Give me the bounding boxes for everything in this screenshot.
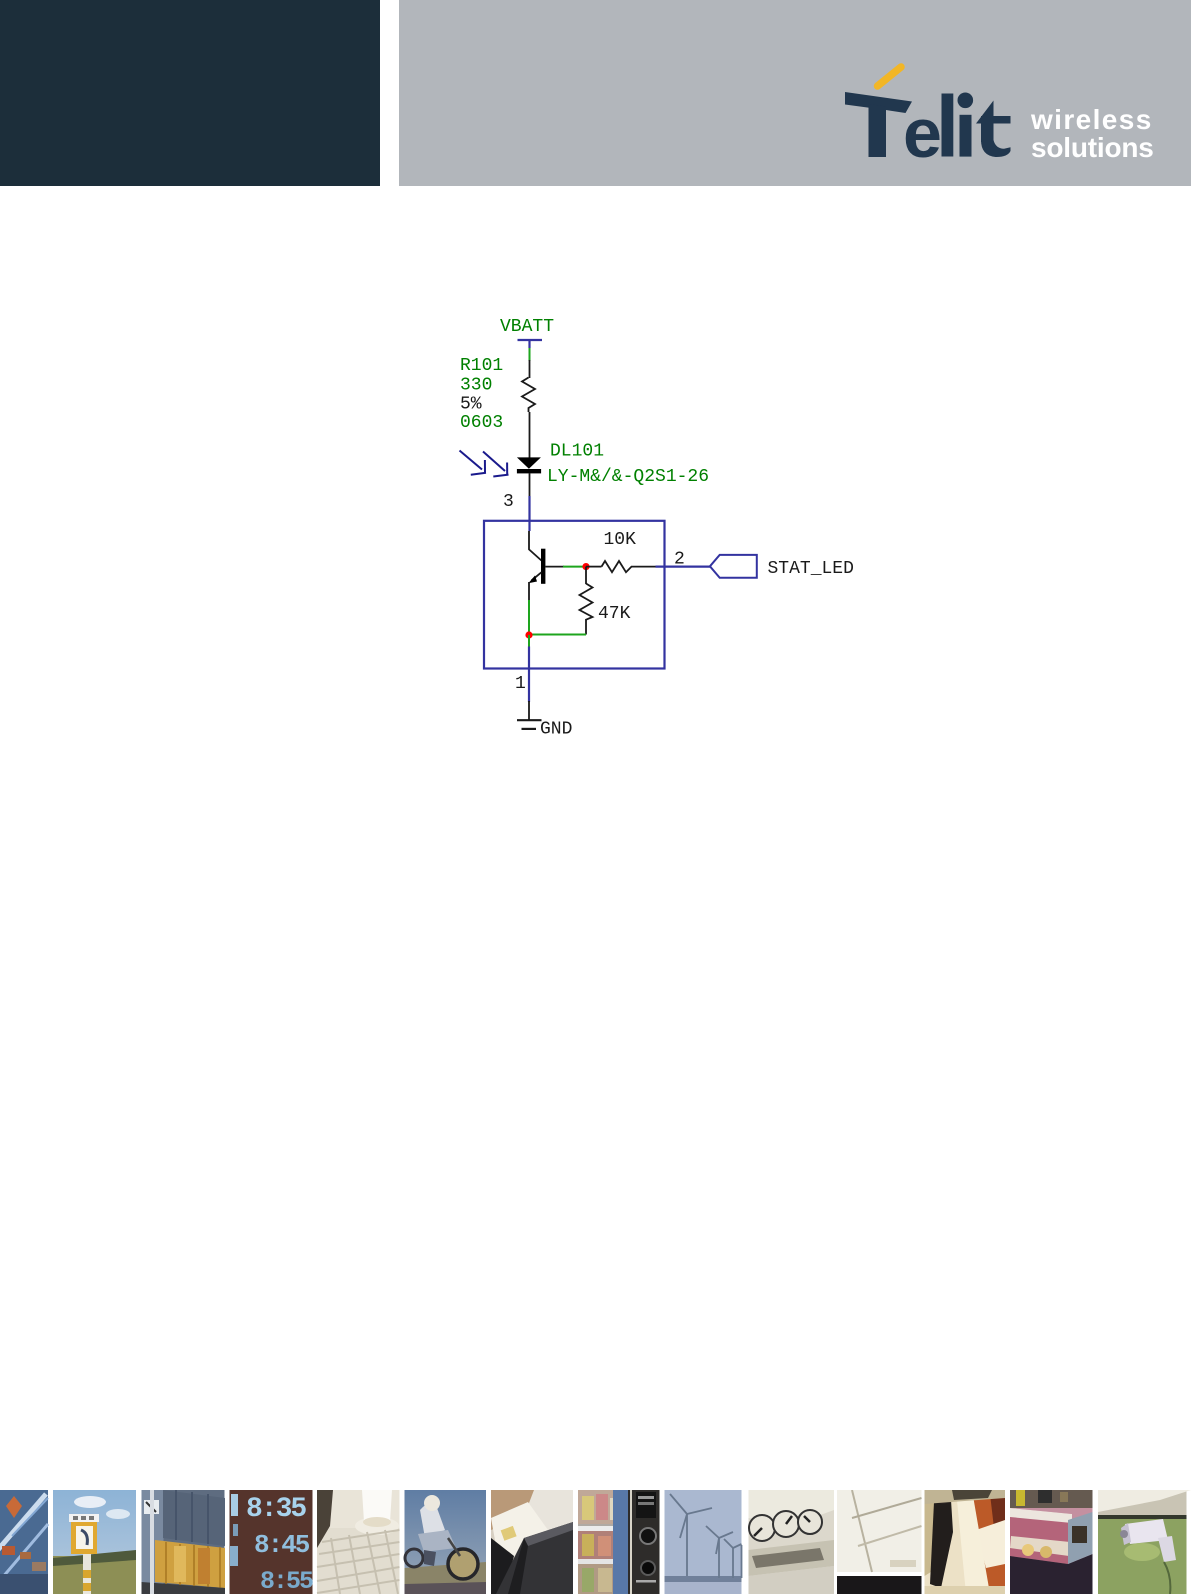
svg-text:LY-M&/&-Q2S1-26: LY-M&/&-Q2S1-26	[547, 467, 709, 487]
wire base to node (green)	[563, 566, 586, 568]
resistor 47K lead bottom	[585, 620, 587, 635]
junction node base	[582, 563, 589, 570]
photo meter	[749, 1490, 835, 1594]
photo LED clock	[230, 1490, 314, 1594]
header gray block	[399, 0, 1191, 186]
svg-text:STAT_LED: STAT_LED	[768, 559, 854, 579]
wire emitter down (black)	[528, 582, 530, 601]
LED light arrow 1	[460, 451, 487, 475]
svg-text:10K: 10K	[604, 530, 637, 550]
svg-text:8:45: 8:45	[254, 1530, 310, 1560]
transistor Q1 emitter arrowhead	[528, 576, 537, 584]
logo t	[976, 101, 994, 124]
wire node to pin 1 (green)	[528, 635, 530, 648]
transistor Q1 base lead (black)	[545, 566, 564, 568]
wire pin 3 (blue segment)	[528, 496, 530, 531]
resistor R101	[522, 378, 535, 413]
LED DL101 cathode bar	[517, 469, 541, 473]
photo vending shelves	[578, 1490, 660, 1594]
svg-text:8:35: 8:35	[246, 1494, 306, 1525]
photo tunnel	[0, 1490, 48, 1594]
photo window	[837, 1490, 922, 1594]
logo T stem	[869, 104, 887, 157]
svg-text:0603: 0603	[460, 413, 503, 433]
logo i	[958, 93, 974, 109]
svg-text:5%: 5%	[460, 395, 482, 415]
wire R101 to DL101	[529, 412, 531, 458]
transistor Q1 collector lead	[529, 531, 541, 561]
photo wind farm	[665, 1490, 742, 1594]
wire pin 1 (blue)	[528, 647, 530, 703]
logo l	[942, 94, 954, 157]
logo yellow accent	[878, 67, 902, 86]
power symbol VBATT rail	[518, 340, 543, 348]
svg-text:2: 2	[674, 550, 685, 570]
resistor 47K	[580, 584, 593, 621]
header dark block	[0, 0, 380, 186]
svg-text:8:55: 8:55	[260, 1567, 313, 1594]
LED light arrow 2	[483, 452, 509, 477]
port STAT_LED connector	[710, 555, 757, 578]
photo cyclist	[405, 1490, 487, 1594]
svg-text:DL101: DL101	[550, 442, 604, 462]
wire pin 2 (blue)	[656, 565, 711, 567]
photo supermarket	[1010, 1490, 1093, 1594]
wire VBATT to R101 (green segment)	[529, 348, 531, 361]
resistor 47K lead top	[585, 567, 587, 584]
svg-text:330: 330	[460, 376, 492, 396]
transistor Q1 emitter lead	[532, 572, 542, 580]
photo phone sign	[53, 1490, 136, 1594]
resistor 10K lead left	[586, 566, 602, 568]
photo card reader	[491, 1490, 573, 1594]
svg-text:GND: GND	[540, 720, 572, 740]
svg-text:47K: 47K	[598, 604, 631, 624]
wire pin 1 to ground (black)	[528, 701, 530, 720]
photo station	[925, 1490, 1006, 1594]
photo containers	[142, 1490, 226, 1594]
resistor 10K	[602, 561, 637, 572]
svg-text:1: 1	[515, 674, 526, 694]
svg-text:VBATT: VBATT	[500, 317, 554, 337]
LED DL101 diode triangle	[517, 457, 541, 468]
svg-text:R101: R101	[460, 356, 503, 376]
transistor Q1 base bar	[541, 549, 545, 584]
photo keyboard	[317, 1490, 400, 1594]
wire VBATT to R101 (black segment)	[529, 360, 531, 378]
Telit logo	[0, 0, 1191, 260]
junction node emitter	[525, 631, 532, 638]
ground symbol	[517, 720, 542, 729]
resistor 10K lead right	[636, 566, 657, 568]
wire DL101 to box (black segment)	[529, 473, 531, 497]
footer photo strip	[0, 1490, 1191, 1594]
component box U101	[484, 521, 665, 669]
logo T bar	[845, 92, 912, 113]
wire emitter down (green)	[528, 600, 530, 635]
photo cctv camera	[1098, 1490, 1191, 1594]
svg-text:3: 3	[503, 492, 514, 512]
wire 47K to emitter node (green)	[529, 634, 586, 636]
